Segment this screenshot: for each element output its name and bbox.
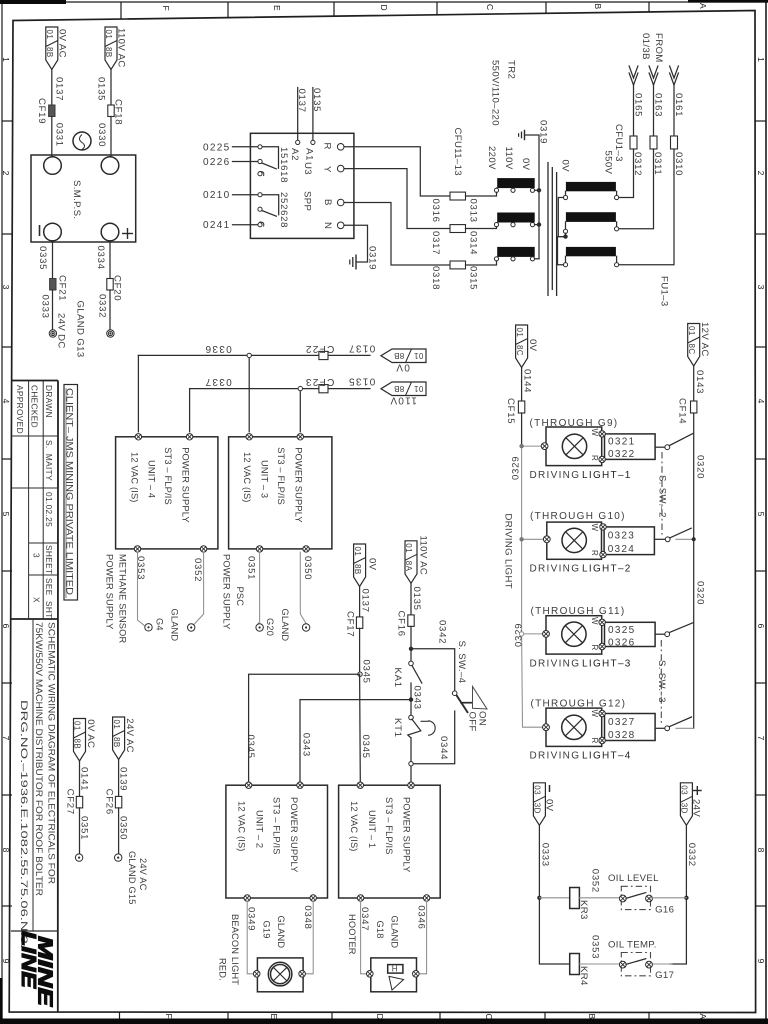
fuse CF20 <box>107 275 123 301</box>
relay coil KR4 <box>570 954 589 987</box>
svg-text:0320: 0320 <box>695 581 706 605</box>
svg-text:0315: 0315 <box>468 266 479 290</box>
svg-text:N: N <box>322 222 333 229</box>
svg-text:0344: 0344 <box>438 736 449 760</box>
svg-text:0314: 0314 <box>468 231 479 255</box>
svg-text:FROM: FROM <box>653 33 664 63</box>
svg-text:POWER SUPPLY: POWER SUPPLY <box>181 447 191 523</box>
svg-text:0V: 0V <box>395 361 410 372</box>
svg-text:CF19: CF19 <box>36 98 47 124</box>
wire 0137 to SMPS <box>52 70 65 106</box>
label GLAND G4 <box>155 609 180 642</box>
label OIL TEMP. <box>608 940 657 951</box>
switch S.SW.-3 blade a <box>655 623 693 637</box>
svg-text:UNIT – 1: UNIT – 1 <box>367 810 377 848</box>
svg-text:HOOTER: HOOTER <box>347 914 357 955</box>
fuse CFU12 + wires 0317/0314 <box>430 225 497 256</box>
svg-text:ST3 – FLP/IS: ST3 – FLP/IS <box>276 447 286 505</box>
svg-text:G18: G18 <box>375 921 385 939</box>
svg-text:UNIT – 3: UNIT – 3 <box>260 460 270 498</box>
svg-text:75KW/550V MACHINE DISTRIBUTO: 75KW/550V MACHINE DISTRIBUTOR FOR ROOF B… <box>34 622 44 897</box>
svg-text:S. MAITY: S. MAITY <box>44 440 54 481</box>
svg-text:550V: 550V <box>603 151 614 175</box>
SPP pins R Y B N <box>337 144 344 229</box>
wire 0210 <box>203 190 258 201</box>
gland terminal G20-A <box>188 624 195 631</box>
oil temp switch G17 <box>619 953 674 982</box>
FU1-3 label <box>659 276 670 307</box>
svg-text:W: W <box>590 429 599 437</box>
wire 0332 to gland G13 <box>97 290 111 330</box>
svg-text:8B: 8B <box>104 47 113 58</box>
svg-text:3: 3 <box>1 285 11 290</box>
fuse CF26 <box>104 789 122 815</box>
svg-text:0322: 0322 <box>608 449 635 460</box>
svg-text:0V: 0V <box>520 158 531 171</box>
svg-text:0210: 0210 <box>203 190 230 201</box>
svg-text:12 VAC (IS): 12 VAC (IS) <box>349 801 359 852</box>
svg-text:24V AC: 24V AC <box>124 718 135 753</box>
wire to unit-1 pin2 <box>409 738 413 782</box>
svg-text:C: C <box>485 4 495 10</box>
svg-text:SPP: SPP <box>302 191 313 211</box>
svg-text:0241: 0241 <box>203 220 230 231</box>
wire 0351 <box>246 552 260 624</box>
wire R to CFU11 <box>344 147 450 196</box>
svg-text:0139: 0139 <box>118 767 129 791</box>
svg-text:PSC: PSC <box>235 587 245 607</box>
svg-text:151618: 151618 <box>278 147 289 183</box>
svg-text:8B: 8B <box>45 47 54 58</box>
svg-text:0326: 0326 <box>608 638 635 649</box>
title block <box>11 381 78 1013</box>
svg-text:01: 01 <box>353 547 362 557</box>
svg-text:0135: 0135 <box>311 88 322 112</box>
svg-text:0317: 0317 <box>430 231 441 255</box>
wire 0351 to gland G15 <box>79 808 90 854</box>
svg-text:DRIVING: DRIVING <box>530 470 581 481</box>
svg-text:24V AC: 24V AC <box>138 858 148 891</box>
fuse CF15 <box>505 398 525 424</box>
svg-text:0336: 0336 <box>204 343 231 354</box>
svg-text:POWER SUPPLY: POWER SUPPLY <box>293 447 303 523</box>
svg-text:0321: 0321 <box>608 436 635 447</box>
svg-text:R: R <box>590 550 599 556</box>
switch S.SW.-4 with ON/OFF <box>452 687 487 732</box>
svg-text:01: 01 <box>414 384 424 393</box>
wire 0135 (CF16) <box>411 583 422 615</box>
svg-text:U3: U3 <box>302 162 313 175</box>
flag 24V AC 01/8B <box>112 717 135 760</box>
svg-text:3: 3 <box>32 553 42 558</box>
driving light 4 <box>530 699 632 762</box>
wire 0135 stub to SPP A1 <box>311 88 322 141</box>
svg-text:0313: 0313 <box>468 199 479 223</box>
svg-text:0331: 0331 <box>53 123 64 147</box>
svg-text:550V/110–220: 550V/110–220 <box>490 60 501 126</box>
oil level switch G16 <box>619 886 674 915</box>
wire 0329 to light3 <box>519 631 549 638</box>
svg-text:0332: 0332 <box>686 843 697 867</box>
svg-text:KA1: KA1 <box>392 668 403 688</box>
svg-text:G16: G16 <box>655 905 674 916</box>
svg-text:0353: 0353 <box>135 556 146 580</box>
svg-text:0328: 0328 <box>608 730 635 741</box>
svg-text:01/3B: 01/3B <box>640 33 651 60</box>
svg-text:0135: 0135 <box>411 587 422 611</box>
svg-text:A: A <box>698 3 708 9</box>
svg-text:S. SW.–2: S. SW.–2 <box>657 475 668 518</box>
fuse CF21 <box>50 275 68 301</box>
incoming feeder arrows FROM 01/3B <box>629 33 678 85</box>
wire 0144 <box>522 368 533 402</box>
svg-text:0310: 0310 <box>673 152 684 176</box>
svg-text:0350: 0350 <box>118 816 129 840</box>
svg-text:OFF: OFF <box>467 712 478 732</box>
power supply unit 3 <box>229 434 332 553</box>
svg-text:0348: 0348 <box>302 905 313 929</box>
svg-text:110V AC: 110V AC <box>116 28 127 68</box>
svg-text:3D: 3D <box>533 803 542 814</box>
svg-text:0135: 0135 <box>348 376 375 387</box>
label METHANE SENSOR POWER SUPPLY <box>105 554 128 644</box>
power supply unit 4 <box>116 434 218 553</box>
fuse CF16 <box>396 611 415 637</box>
svg-text:0324: 0324 <box>608 544 635 555</box>
wires 0327/0328 + terminal rect <box>599 710 655 743</box>
wire 0336 (110V? bus to unit supplies) <box>138 343 370 355</box>
wire 0330 <box>96 117 111 158</box>
svg-text:LIGHT–3: LIGHT–3 <box>582 659 632 670</box>
svg-text:8: 8 <box>1 848 11 853</box>
svg-text:0323: 0323 <box>608 530 635 541</box>
svg-text:G20: G20 <box>265 618 275 636</box>
svg-text:DRAWN: DRAWN <box>44 385 54 418</box>
gland terminal G20-B <box>256 624 263 631</box>
label BEACON LIGHT RED. <box>218 914 241 985</box>
svg-text:110V: 110V <box>389 394 417 405</box>
wire 0333 to gland G13 <box>40 290 53 330</box>
wire drops to unit-3 <box>247 353 251 432</box>
svg-text:G17: G17 <box>655 970 674 981</box>
svg-text:CF27: CF27 <box>65 789 76 815</box>
transformer TR2 label <box>490 60 517 126</box>
svg-text:0347: 0347 <box>359 907 370 931</box>
flag 0V 01/8C (driving lights return) <box>515 325 538 368</box>
svg-text:RED.: RED. <box>218 958 228 981</box>
svg-text:8C: 8C <box>687 344 696 355</box>
TR2 core <box>548 162 557 296</box>
svg-text:R: R <box>590 738 599 744</box>
svg-text:CF26: CF26 <box>104 789 115 815</box>
wire 0337 <box>190 376 370 388</box>
svg-text:0319: 0319 <box>367 246 378 270</box>
svg-text:0327: 0327 <box>608 717 635 728</box>
fuse CF23 <box>305 376 335 393</box>
wire 0331 <box>52 117 65 158</box>
svg-text:0137: 0137 <box>360 589 371 613</box>
svg-text:0V AC: 0V AC <box>85 719 96 748</box>
wire 0352 <box>192 552 204 625</box>
wire 0343 junction <box>409 683 423 716</box>
wire 0352 to G16 <box>579 869 621 898</box>
svg-text:GLAND G15: GLAND G15 <box>127 851 137 905</box>
svg-text:0137: 0137 <box>296 89 307 113</box>
svg-text:12 VAC (IS): 12 VAC (IS) <box>130 452 140 503</box>
wire 0335 from SMPS minus <box>37 241 53 279</box>
label GLAND G19 <box>262 916 287 949</box>
svg-text:0318: 0318 <box>430 266 441 290</box>
wire 0310 <box>619 149 684 265</box>
flag +24V 03/3D <box>680 783 702 826</box>
wire 0137 stub to SPP A2 <box>296 88 307 141</box>
ground 0319 at TR2 <box>519 120 549 259</box>
svg-text:01: 01 <box>404 543 413 553</box>
svg-text:DRIVING: DRIVING <box>530 563 581 574</box>
wire 0348 <box>302 901 313 974</box>
beacon light (red) <box>253 958 305 992</box>
svg-text:0316: 0316 <box>430 199 441 223</box>
svg-text:G19: G19 <box>262 921 272 939</box>
label GLAND G18 <box>375 916 400 949</box>
wire 0353 to G17 <box>579 935 621 964</box>
svg-text:220V: 220V <box>486 146 497 170</box>
svg-text:F: F <box>164 1014 174 1019</box>
power supply unit 2 <box>226 782 328 901</box>
gland terminal G13-B <box>107 330 114 337</box>
wire drops to unit-4 <box>138 355 189 431</box>
svg-text:ST3 – FLP/IS: ST3 – FLP/IS <box>163 447 173 505</box>
svg-text:0311: 0311 <box>652 152 663 175</box>
svg-text:0343: 0343 <box>301 733 312 757</box>
svg-text:252628: 252628 <box>278 192 289 228</box>
wire G16 to +bus <box>651 897 687 899</box>
svg-text:DRG.NO.–1936.E.1082.55.75.06.N: DRG.NO.–1936.E.1082.55.75.06.N.3. <box>19 700 29 948</box>
svg-text:DRIVING LIGHT: DRIVING LIGHT <box>503 514 514 589</box>
svg-text:BEACON LIGHT: BEACON LIGHT <box>230 914 240 985</box>
svg-text:0V: 0V <box>544 799 555 812</box>
svg-text:0346: 0346 <box>416 905 427 929</box>
junction + wire 0342 branch <box>409 620 467 691</box>
gland terminal G15-A <box>115 854 122 861</box>
svg-text:POWER SUPPLY: POWER SUPPLY <box>222 554 232 630</box>
wire 0344 return <box>413 711 455 764</box>
svg-text:1: 1 <box>1 57 11 62</box>
svg-text:0V AC: 0V AC <box>57 29 68 58</box>
gland terminal G13-A <box>49 330 56 337</box>
wire B to CFU13 <box>344 203 450 266</box>
flag 0V 01/8B (CF17) <box>353 544 378 587</box>
svg-text:5: 5 <box>756 512 766 517</box>
svg-text:0319: 0319 <box>538 120 549 144</box>
svg-text:9: 9 <box>1 959 11 964</box>
S.SW.-3 linkage <box>656 640 667 725</box>
svg-text:0137: 0137 <box>53 77 64 101</box>
svg-text:0226: 0226 <box>203 157 230 168</box>
svg-text:E: E <box>269 1014 279 1020</box>
svg-text:0352: 0352 <box>192 558 203 582</box>
svg-text:LIGHT–4: LIGHT–4 <box>582 751 632 762</box>
TR2 primary winding 1 <box>563 182 618 200</box>
driving light 1 <box>530 418 632 481</box>
AC source symbol <box>73 132 91 150</box>
TR2 secondary winding 3 <box>494 247 534 261</box>
svg-text:0325: 0325 <box>608 625 635 636</box>
svg-text:0345: 0345 <box>361 660 372 684</box>
label DRIVING LIGHT (bus) <box>503 514 514 589</box>
svg-text:GLAND: GLAND <box>280 609 290 642</box>
svg-text:0350: 0350 <box>302 556 313 580</box>
svg-text:APPROVED: APPROVED <box>15 385 25 434</box>
svg-text:12 VAC (IS): 12 VAC (IS) <box>242 452 252 503</box>
svg-text:0143: 0143 <box>694 370 705 394</box>
svg-text:POWER SUPPLY: POWER SUPPLY <box>402 797 412 873</box>
svg-text:POWER SUPPLY: POWER SUPPLY <box>289 797 299 873</box>
wire 0225 <box>203 142 258 153</box>
fuse CF18 <box>108 99 124 125</box>
fuse CFU11 + wires 0316/0313 <box>430 192 497 223</box>
svg-text:0345: 0345 <box>245 735 256 759</box>
svg-text:DRIVING: DRIVING <box>530 751 581 762</box>
svg-text:0163: 0163 <box>653 93 664 117</box>
svg-text:24V: 24V <box>691 799 702 817</box>
svg-text:0333: 0333 <box>40 295 51 319</box>
svg-text:F: F <box>161 6 171 11</box>
svg-text:8B: 8B <box>353 564 362 575</box>
SPP contact set 15-16-18 <box>258 145 279 176</box>
fuse CF14 <box>677 398 697 424</box>
svg-text:LIGHT–2: LIGHT–2 <box>582 563 632 574</box>
svg-text:01: 01 <box>515 328 524 338</box>
wire 0350 to gland G15 <box>118 808 129 854</box>
svg-text:0353: 0353 <box>590 935 601 959</box>
label OIL LEVEL <box>608 873 659 884</box>
wire 0135 to SMPS <box>96 70 112 106</box>
svg-text:3: 3 <box>756 285 766 290</box>
gland terminal G4 <box>145 624 152 631</box>
svg-text:TR2: TR2 <box>506 60 517 79</box>
wire 0332 <box>670 825 697 964</box>
svg-text:A1: A1 <box>304 148 315 161</box>
wire 0165 <box>633 84 644 136</box>
wire 0137 (CF17) <box>360 587 371 617</box>
svg-text:0135: 0135 <box>96 77 107 101</box>
timer contact KT1 <box>392 715 435 738</box>
svg-text:0334: 0334 <box>95 246 106 270</box>
svg-text:G4: G4 <box>155 618 165 631</box>
svg-text:B: B <box>322 199 333 206</box>
fuse CF22 <box>305 343 335 360</box>
svg-text:0329: 0329 <box>511 456 522 480</box>
0V bus taps <box>535 188 542 259</box>
svg-text:4: 4 <box>1 399 11 404</box>
wire 0350 <box>300 552 313 623</box>
svg-text:2: 2 <box>756 171 766 176</box>
wire 0329 to light2 <box>519 536 550 543</box>
svg-text:CFU1–3: CFU1–3 <box>613 124 624 162</box>
wire 0349 <box>246 901 257 974</box>
wire 0329 to light4 <box>543 724 550 731</box>
TR2 primary winding 3 <box>563 247 618 267</box>
svg-text:6: 6 <box>756 624 766 629</box>
svg-text:0335: 0335 <box>37 246 48 270</box>
svg-text:LIGHT–1: LIGHT–1 <box>582 470 632 481</box>
svg-text:0345: 0345 <box>360 735 371 759</box>
flag -0V 03/3D <box>533 783 555 826</box>
svg-text:8A: 8A <box>404 561 413 572</box>
svg-text:CF15: CF15 <box>505 398 516 424</box>
svg-text:SCHEMATIC WIRING DIAGRAM OF: SCHEMATIC WIRING DIAGRAM OF ELECTRICALS … <box>47 622 57 885</box>
svg-text:CHECKED: CHECKED <box>30 385 40 428</box>
wire 0333 <box>537 825 570 964</box>
wire 0163 <box>653 84 664 136</box>
svg-text:0225: 0225 <box>203 142 230 153</box>
SPP unit U3 box <box>250 133 354 238</box>
labels 220V 110V 0V <box>486 146 531 171</box>
flag 0V AC 01/8B (top-left) <box>45 27 68 70</box>
svg-text:0312: 0312 <box>632 152 643 176</box>
svg-text:S. SW.–3: S. SW.–3 <box>656 660 667 703</box>
wire 0141 <box>79 761 90 796</box>
svg-text:OIL TEMP.: OIL TEMP. <box>608 940 657 951</box>
wire 0312 <box>619 149 643 198</box>
wire 0345 junction <box>358 628 372 683</box>
svg-text:CF16: CF16 <box>396 611 407 637</box>
wire 0345 horizontal + drop to unit-2 <box>245 674 360 782</box>
wires 0323/0324 + terminal rect <box>600 524 655 558</box>
svg-text:ST3 – FLP/IS: ST3 – FLP/IS <box>272 797 282 855</box>
S.SW.-2 linkage <box>657 452 668 536</box>
wire 0334 from SMPS plus <box>95 241 110 279</box>
svg-text:0165: 0165 <box>633 93 644 117</box>
relay contact KA1 <box>392 661 422 688</box>
svg-text:4: 4 <box>756 399 766 404</box>
svg-text:X: X <box>32 597 42 603</box>
svg-text:ST3 – FLP/IS: ST3 – FLP/IS <box>384 797 394 855</box>
primary interconnect bus <box>558 198 568 265</box>
flag 110V AC 01/8A <box>404 536 428 584</box>
S.M.P.S. unit <box>31 155 136 242</box>
svg-text:0V: 0V <box>527 339 538 352</box>
svg-text:0343: 0343 <box>412 686 423 710</box>
svg-text:0333: 0333 <box>540 843 551 867</box>
wire 0137 label + flag 0V 01/8B (left-pointing) <box>348 342 375 353</box>
fuse CF27 <box>65 789 83 815</box>
svg-text:KT1: KT1 <box>392 718 403 738</box>
wire to 0329 bus <box>521 413 523 446</box>
gland terminal G20-C <box>302 624 309 631</box>
TR2 secondary winding 2 <box>494 213 534 227</box>
label GLAND G20 <box>265 609 290 642</box>
svg-text:D: D <box>375 1014 385 1020</box>
svg-text:CF18: CF18 <box>113 99 124 125</box>
hooter device <box>367 958 420 992</box>
svg-text:OIL LEVEL: OIL LEVEL <box>608 873 659 884</box>
wire 0347 <box>359 901 370 974</box>
svg-text:W: W <box>590 617 599 625</box>
svg-text:01: 01 <box>73 721 82 731</box>
svg-text:2: 2 <box>1 171 11 176</box>
svg-text:LINE: LINE <box>17 931 39 989</box>
svg-text:0144: 0144 <box>522 369 533 393</box>
svg-text:01: 01 <box>414 351 424 360</box>
svg-text:CF23: CF23 <box>305 376 335 387</box>
svg-text:CF20: CF20 <box>112 275 123 301</box>
svg-text:03: 03 <box>533 785 542 795</box>
switch S.SW.-3 blade b <box>655 717 694 731</box>
svg-text:(THROUGH G10): (THROUGH G10) <box>530 511 626 522</box>
flag 12V AC 01/8C <box>687 322 710 366</box>
